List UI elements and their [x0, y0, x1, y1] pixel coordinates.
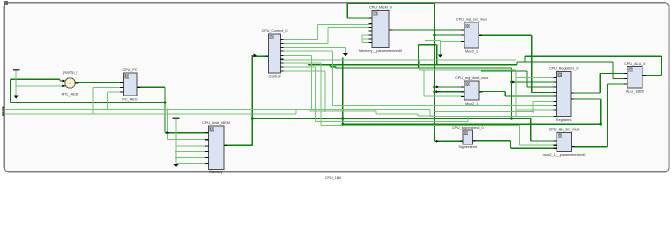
- block CPU_Registers_0: [549, 67, 579, 122]
- wire: light branch to registers pin6: [435, 102, 557, 112]
- wire: signextend out to alu_src_mux: [473, 141, 557, 148]
- wire: instruction trunk to mid verticals: [252, 58, 600, 125]
- wire: reg_dest_mux out to registers write addr: [479, 91, 556, 96]
- block CPU_signextend_0: [452, 126, 484, 149]
- wire: instr memory out and instruction vertical: [224, 55, 269, 145]
- wire: PC out to instr memory addr: [137, 87, 209, 132]
- wire: top trunk into data mem: [347, 3, 434, 141]
- wire: adder output to PC: [76, 81, 124, 83]
- svg-text:Control: Control: [269, 75, 281, 79]
- wire: clk port trunk: [3, 110, 435, 117]
- wires: control outputs: [280, 25, 372, 40]
- svg-text:Signextend: Signextend: [458, 145, 476, 149]
- block CPU_PC: [120, 68, 140, 102]
- wire: data mem out to reg_src_mux: [389, 29, 464, 31]
- wire: alu_src_mux out up to ALU B: [572, 84, 628, 147]
- wire: reset port trunk: [3, 109, 557, 116]
- block CPU_Control_0: [262, 29, 288, 79]
- junction dots: [433, 34, 436, 37]
- wire: reg out2 down to trunk: [571, 99, 601, 124]
- wire: ALU return trunk chain to registers pin: [481, 56, 662, 87]
- svg-text:CPU_Registers_0: CPU_Registers_0: [549, 67, 579, 71]
- svg-text:RTL_ADD: RTL_ADD: [62, 92, 79, 96]
- svg-text:Memory__parameterized0: Memory__parameterized0: [359, 49, 402, 53]
- svg-text:CPU_reg_src_mux: CPU_reg_src_mux: [456, 17, 487, 21]
- corner handle: [4, 1, 8, 5]
- svg-text:CPU_Control_0: CPU_Control_0: [262, 29, 288, 33]
- direction arrows on nets: [254, 54, 258, 58]
- wire: reg_src_mux select: [425, 41, 464, 55]
- svg-text:CPU_reg_dest_mux: CPU_reg_dest_mux: [455, 76, 488, 80]
- wire: constant to adder: [16, 70, 65, 96]
- svg-text:plusOp_i: plusOp_i: [63, 71, 78, 75]
- block CPU_Instr_MEM: [202, 121, 230, 174]
- block CPU_MEM_0: [359, 5, 402, 53]
- svg-text:CPU_MEM_0: CPU_MEM_0: [369, 5, 392, 9]
- wire: instr mem input bundle: [167, 110, 208, 164]
- wire: PC light inputs: [93, 88, 124, 114]
- svg-text:CPU_ALU_0: CPU_ALU_0: [624, 62, 645, 66]
- wire: ALU out: [642, 56, 661, 75]
- wire: registers pin1 light: [516, 70, 557, 116]
- wire: bottom trunk down to registers and alu mux: [330, 65, 557, 141]
- svg-text:CPU_Instr_MEM: CPU_Instr_MEM: [202, 121, 230, 125]
- adder RTL_ADD: [62, 71, 79, 97]
- wires: data mem small inputs: [362, 35, 372, 43]
- wire: trunk to ALU input A2: [308, 45, 628, 79]
- svg-text:Memory: Memory: [209, 170, 222, 174]
- wire: reg out1 to ALU A: [571, 74, 627, 93]
- svg-text:Registers: Registers: [556, 118, 572, 122]
- svg-text:Mux2_1: Mux2_1: [465, 50, 478, 54]
- svg-text:PC_REG: PC_REG: [122, 97, 137, 101]
- svg-text:Mux2_1: Mux2_1: [465, 102, 478, 106]
- wire: adder feedback loop dark: [11, 79, 166, 132]
- block CPU_reg_src_mux: [456, 17, 487, 53]
- sheet border: [4, 3, 669, 172]
- svg-text:mux2_1__parameterized0: mux2_1__parameterized0: [543, 153, 586, 157]
- wire: instr fanout branches: [419, 35, 465, 141]
- block CPU_ALU_0: [624, 62, 646, 94]
- svg-text:CPU_alu_src_mux: CPU_alu_src_mux: [549, 128, 580, 132]
- svg-text:CPU_signextend_0: CPU_signextend_0: [452, 126, 484, 130]
- block CPU_reg_dest_mux: [455, 76, 488, 106]
- wire: reg_src_mux out down to registers write data: [479, 35, 557, 92]
- svg-text:CPU_PC: CPU_PC: [123, 68, 138, 72]
- svg-text:CPU_1Bit: CPU_1Bit: [325, 176, 341, 180]
- svg-text:ALU_16Bit: ALU_16Bit: [626, 90, 644, 94]
- block CPU_alu_src_mux: [543, 128, 586, 157]
